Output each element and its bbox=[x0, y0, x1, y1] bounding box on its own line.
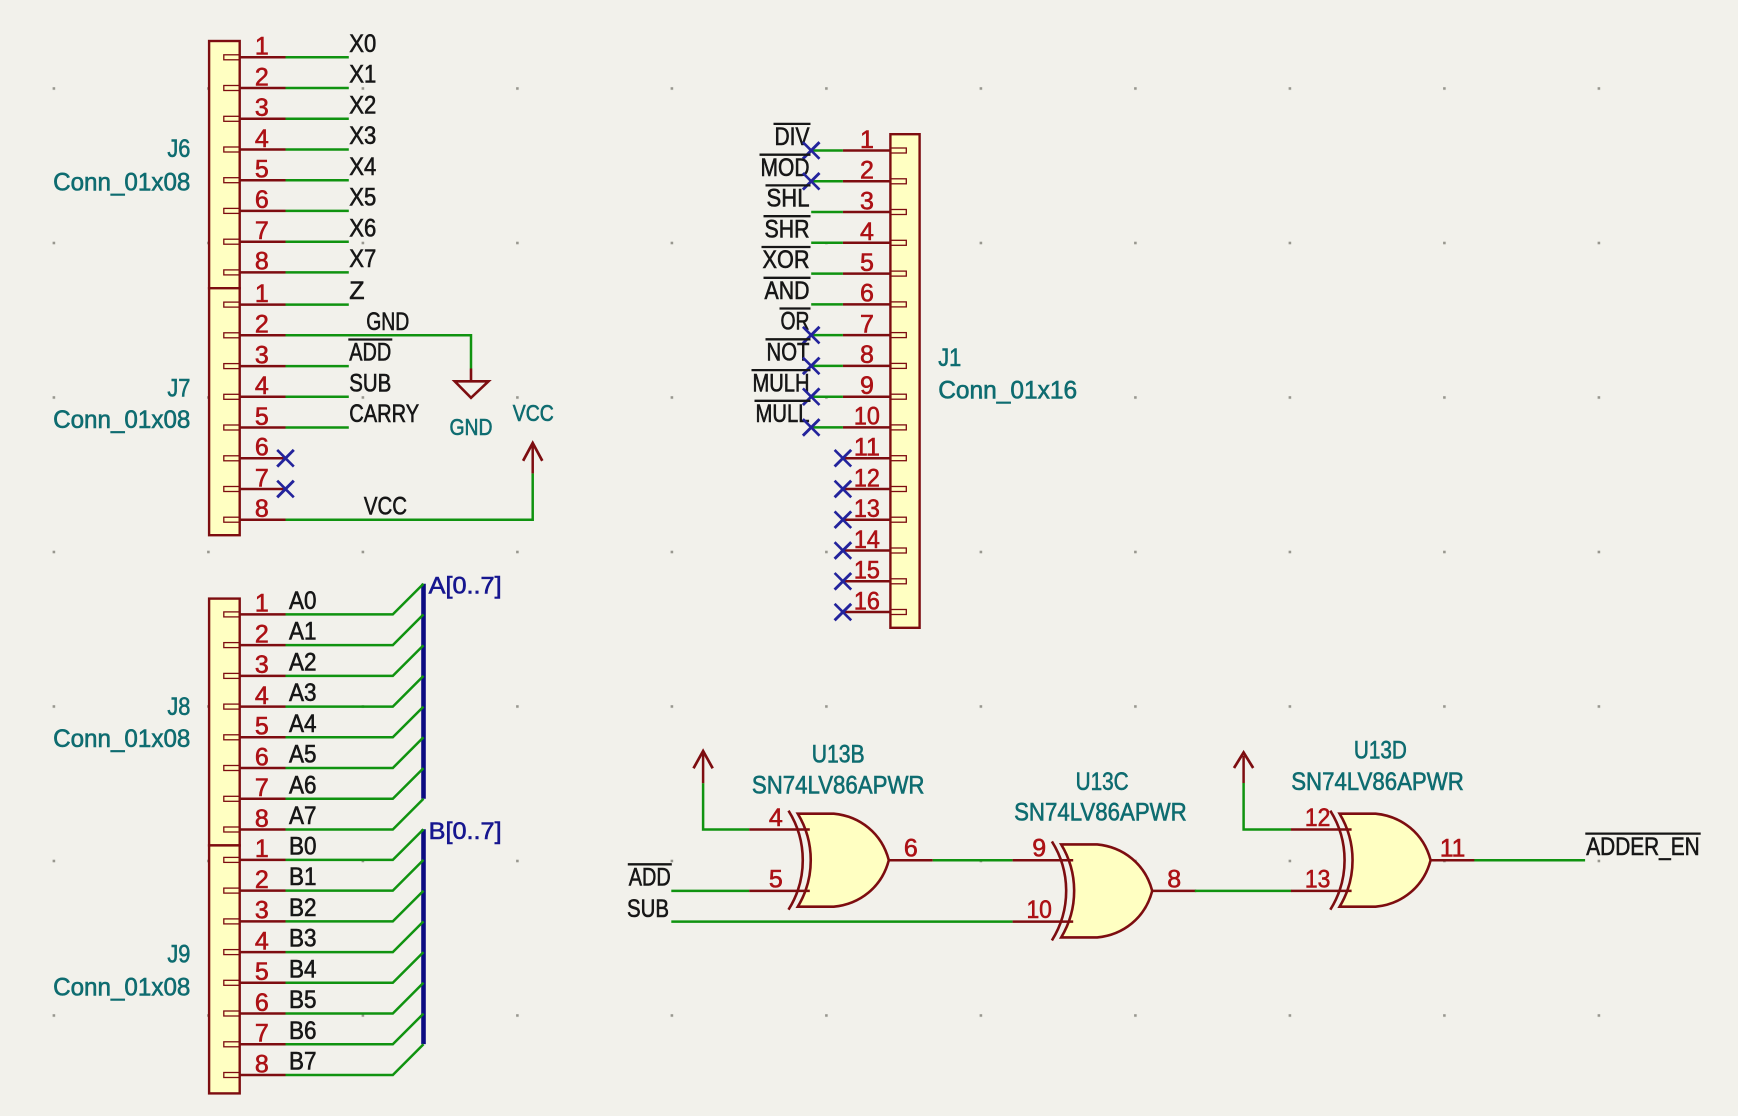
power symbol GND bbox=[450, 369, 493, 441]
svg-text:8: 8 bbox=[255, 805, 269, 833]
svg-text:CARRY: CARRY bbox=[349, 400, 419, 428]
connector J8 body bbox=[209, 599, 240, 846]
wire Z bbox=[286, 303, 349, 306]
J7 pin 2 bbox=[224, 311, 286, 339]
U13D output pin 11 bbox=[1431, 835, 1475, 863]
svg-text:B3: B3 bbox=[289, 925, 317, 953]
wire B5 to bus bbox=[286, 983, 424, 1014]
wire SHL bbox=[811, 211, 843, 214]
svg-text:10: 10 bbox=[1026, 896, 1052, 924]
wire B0 to bus bbox=[286, 829, 424, 860]
J1 pin 7 bbox=[843, 310, 906, 338]
J8 pin 5 bbox=[224, 713, 286, 741]
svg-text:8: 8 bbox=[860, 341, 874, 369]
xor gate U13D body bbox=[1330, 811, 1430, 910]
svg-text:15: 15 bbox=[854, 557, 880, 585]
J6 pin 1 bbox=[224, 33, 286, 61]
svg-text:5: 5 bbox=[860, 249, 874, 277]
U13D input pin 12 bbox=[1291, 804, 1352, 832]
wire SUB to U13C pin 10 bbox=[671, 920, 1012, 923]
svg-text:B4: B4 bbox=[289, 955, 317, 983]
wire ADD to U13B pin 5 bbox=[671, 890, 749, 893]
U13D input pin 13 bbox=[1291, 865, 1352, 893]
J1 pin 8 bbox=[843, 341, 906, 369]
svg-text:3: 3 bbox=[860, 187, 874, 215]
svg-text:4: 4 bbox=[255, 927, 269, 955]
J1 pin 9 bbox=[843, 372, 906, 400]
svg-text:4: 4 bbox=[860, 218, 874, 246]
svg-text:A7: A7 bbox=[289, 802, 317, 830]
J9 pin 3 bbox=[224, 897, 286, 925]
svg-text:OR: OR bbox=[781, 308, 810, 336]
svg-text:A0: A0 bbox=[289, 587, 317, 615]
J7 pin 5 bbox=[224, 403, 286, 431]
svg-text:J7: J7 bbox=[167, 375, 190, 403]
svg-text:GND: GND bbox=[366, 308, 409, 336]
svg-text:2: 2 bbox=[255, 311, 269, 339]
svg-text:7: 7 bbox=[255, 464, 269, 492]
svg-text:6: 6 bbox=[860, 280, 874, 308]
svg-text:B2: B2 bbox=[289, 894, 317, 922]
svg-text:A5: A5 bbox=[289, 741, 317, 769]
J9 pin 2 bbox=[224, 866, 286, 894]
svg-text:X3: X3 bbox=[349, 122, 376, 150]
svg-text:1: 1 bbox=[860, 126, 874, 154]
svg-text:Conn_01x08: Conn_01x08 bbox=[53, 169, 190, 197]
no-connect J1 pin 2 bbox=[803, 173, 820, 190]
wire X2 bbox=[286, 118, 349, 121]
wire GND net bbox=[286, 335, 472, 368]
J1 pin 5 bbox=[843, 249, 906, 277]
J6 pin 8 bbox=[224, 248, 286, 276]
J9 pin 7 bbox=[224, 1020, 286, 1048]
wire U13D pin 11 to ADDER_EN bbox=[1474, 859, 1585, 862]
svg-text:SUB: SUB bbox=[349, 369, 391, 397]
connector J9 body bbox=[209, 845, 240, 1093]
wire A2 to bus bbox=[286, 645, 424, 676]
svg-text:DIV: DIV bbox=[775, 123, 810, 151]
no-connect J1 pin 14 bbox=[835, 542, 852, 559]
svg-text:MULH: MULH bbox=[753, 369, 810, 397]
svg-text:9: 9 bbox=[860, 372, 874, 400]
wire CARRY bbox=[286, 426, 349, 429]
J7 pin 4 bbox=[224, 372, 286, 400]
J7 pin 7 bbox=[224, 464, 286, 492]
svg-text:1: 1 bbox=[255, 835, 269, 863]
wire A6 to bus bbox=[286, 768, 424, 799]
wire MULL bbox=[811, 426, 843, 429]
wire X0 bbox=[286, 56, 349, 59]
xor gate U13C body bbox=[1052, 841, 1152, 940]
wire VCC net bbox=[286, 473, 533, 519]
J6 pin 7 bbox=[224, 217, 286, 245]
wire XOR bbox=[811, 272, 843, 275]
svg-text:8: 8 bbox=[255, 1050, 269, 1078]
wire MULH bbox=[811, 395, 843, 398]
J9 pin 6 bbox=[224, 989, 286, 1017]
J8 pin 2 bbox=[224, 620, 286, 648]
wire B1 to bus bbox=[286, 860, 424, 891]
svg-text:SN74LV86APWR: SN74LV86APWR bbox=[1014, 799, 1187, 827]
wire B6 to bus bbox=[286, 1014, 424, 1045]
svg-text:8: 8 bbox=[255, 248, 269, 276]
J1 pin 15 bbox=[843, 557, 906, 585]
svg-text:4: 4 bbox=[255, 372, 269, 400]
svg-text:4: 4 bbox=[255, 682, 269, 710]
svg-text:11: 11 bbox=[854, 434, 880, 462]
svg-text:B[0..7]: B[0..7] bbox=[429, 818, 502, 845]
svg-text:VCC: VCC bbox=[513, 400, 554, 426]
J9 pin 8 bbox=[224, 1050, 286, 1078]
no-connect J1 pin 16 bbox=[835, 604, 852, 621]
svg-text:2: 2 bbox=[255, 620, 269, 648]
svg-text:Conn_01x08: Conn_01x08 bbox=[53, 974, 190, 1002]
U13B input pin 4 bbox=[749, 804, 810, 832]
svg-text:U13D: U13D bbox=[1354, 737, 1407, 765]
svg-text:Conn_01x16: Conn_01x16 bbox=[938, 377, 1077, 405]
no-connect J1 pin 9 bbox=[803, 388, 820, 405]
U13B output pin 6 bbox=[889, 835, 933, 863]
connector J1 body bbox=[890, 134, 919, 628]
wire MOD bbox=[811, 180, 843, 183]
wire X3 bbox=[286, 148, 349, 151]
svg-text:7: 7 bbox=[255, 217, 269, 245]
svg-text:Conn_01x08: Conn_01x08 bbox=[53, 725, 190, 753]
svg-text:B1: B1 bbox=[289, 863, 317, 891]
svg-text:4: 4 bbox=[769, 804, 783, 832]
J6 pin 2 bbox=[224, 63, 286, 91]
svg-text:7: 7 bbox=[255, 1020, 269, 1048]
J1 pin 10 bbox=[843, 403, 906, 431]
svg-text:X7: X7 bbox=[349, 245, 376, 273]
svg-text:Z: Z bbox=[349, 277, 364, 305]
svg-text:B7: B7 bbox=[289, 1048, 317, 1076]
svg-text:XOR: XOR bbox=[763, 246, 810, 274]
svg-text:VCC: VCC bbox=[364, 492, 407, 520]
no-connect J1 pin 13 bbox=[835, 511, 852, 528]
no-connect J1 pin 10 bbox=[803, 419, 820, 436]
wire A7 to bus bbox=[286, 799, 424, 830]
wire DIV bbox=[811, 149, 843, 152]
svg-text:6: 6 bbox=[255, 989, 269, 1017]
J8 pin 6 bbox=[224, 743, 286, 771]
J7 pin 6 bbox=[224, 434, 286, 462]
svg-text:ADDER_EN: ADDER_EN bbox=[1586, 833, 1699, 861]
svg-text:13: 13 bbox=[1305, 865, 1331, 893]
svg-text:5: 5 bbox=[255, 156, 269, 184]
wire ADD bbox=[286, 365, 349, 368]
svg-text:X6: X6 bbox=[349, 214, 376, 242]
J1 pin 1 bbox=[843, 126, 906, 154]
wire A0 to bus bbox=[286, 584, 424, 615]
svg-text:U13B: U13B bbox=[812, 741, 865, 769]
wire X1 bbox=[286, 87, 349, 90]
no-connect J7 pin 6 bbox=[277, 450, 294, 467]
svg-text:10: 10 bbox=[854, 403, 880, 431]
svg-text:1: 1 bbox=[255, 280, 269, 308]
power symbol VCC bbox=[513, 400, 554, 473]
svg-text:X0: X0 bbox=[349, 30, 376, 58]
no-connect J1 pin 15 bbox=[835, 573, 852, 590]
svg-text:3: 3 bbox=[255, 651, 269, 679]
J7 pin 8 bbox=[224, 495, 286, 523]
svg-text:A1: A1 bbox=[289, 618, 317, 646]
J9 pin 4 bbox=[224, 927, 286, 955]
J1 pin 4 bbox=[843, 218, 906, 246]
J6 pin 4 bbox=[224, 125, 286, 153]
J7 pin 1 bbox=[224, 280, 286, 308]
svg-text:SHL: SHL bbox=[767, 185, 810, 213]
svg-text:U13C: U13C bbox=[1076, 768, 1129, 796]
svg-text:6: 6 bbox=[255, 186, 269, 214]
wire U13B pin 6 to U13C pin 9 bbox=[933, 859, 1013, 862]
svg-text:Conn_01x08: Conn_01x08 bbox=[53, 406, 190, 434]
svg-text:1: 1 bbox=[255, 33, 269, 61]
J8 pin 1 bbox=[224, 590, 286, 618]
svg-text:9: 9 bbox=[1032, 835, 1046, 863]
J8 pin 7 bbox=[224, 774, 286, 802]
svg-text:X5: X5 bbox=[349, 184, 376, 212]
no-connect J1 pin 7 bbox=[803, 327, 820, 344]
svg-text:11: 11 bbox=[1440, 835, 1466, 863]
J6 pin 6 bbox=[224, 186, 286, 214]
svg-text:5: 5 bbox=[255, 713, 269, 741]
wire X6 bbox=[286, 240, 349, 243]
J9 pin 1 bbox=[224, 835, 286, 863]
svg-text:J1: J1 bbox=[938, 344, 961, 372]
svg-text:B5: B5 bbox=[289, 986, 317, 1014]
J7 pin 3 bbox=[224, 341, 286, 369]
connector J7 body bbox=[209, 288, 240, 535]
svg-text:A3: A3 bbox=[289, 679, 317, 707]
J1 pin 2 bbox=[843, 157, 906, 185]
bus B[0..7] bbox=[421, 829, 426, 1044]
svg-text:GND: GND bbox=[450, 414, 493, 440]
svg-text:B6: B6 bbox=[289, 1017, 317, 1045]
wire B7 to bus bbox=[286, 1044, 424, 1075]
wire U13C pin 8 to U13D pin 13 bbox=[1195, 890, 1292, 893]
svg-text:A4: A4 bbox=[289, 710, 317, 738]
J1 pin 16 bbox=[843, 587, 906, 615]
wire NOT bbox=[811, 365, 843, 368]
power symbol VCC (U13D pin 12) bbox=[1234, 753, 1253, 784]
svg-text:ADD: ADD bbox=[629, 864, 671, 892]
svg-text:SN74LV86APWR: SN74LV86APWR bbox=[1291, 768, 1464, 796]
xor gate U13B body bbox=[789, 811, 889, 910]
svg-text:8: 8 bbox=[255, 495, 269, 523]
J8 pin 8 bbox=[224, 805, 286, 833]
wire B4 to bus bbox=[286, 952, 424, 983]
svg-text:8: 8 bbox=[1167, 865, 1181, 893]
power symbol VCC (U13B pin 4) bbox=[694, 751, 713, 783]
U13C input pin 9 bbox=[1013, 835, 1074, 863]
wire X5 bbox=[286, 210, 349, 213]
wire B3 to bus bbox=[286, 921, 424, 952]
wire SUB bbox=[286, 396, 349, 399]
svg-text:J9: J9 bbox=[167, 941, 190, 969]
wire VCC to U13D pin 12 bbox=[1244, 783, 1291, 830]
J1 pin 6 bbox=[843, 280, 906, 308]
svg-text:5: 5 bbox=[255, 403, 269, 431]
svg-text:3: 3 bbox=[255, 897, 269, 925]
J6 pin 3 bbox=[224, 94, 286, 122]
no-connect J1 pin 11 bbox=[835, 450, 852, 467]
wire B2 to bus bbox=[286, 891, 424, 922]
svg-text:14: 14 bbox=[854, 526, 880, 554]
J8 pin 4 bbox=[224, 682, 286, 710]
no-connect J1 pin 1 bbox=[803, 142, 820, 159]
svg-text:X4: X4 bbox=[349, 153, 376, 181]
svg-text:SN74LV86APWR: SN74LV86APWR bbox=[752, 772, 925, 800]
svg-text:1: 1 bbox=[255, 590, 269, 618]
wire AND bbox=[811, 303, 843, 306]
no-connect J1 pin 12 bbox=[835, 481, 852, 498]
svg-text:12: 12 bbox=[1305, 804, 1331, 832]
svg-text:SUB: SUB bbox=[627, 895, 669, 923]
svg-text:6: 6 bbox=[255, 434, 269, 462]
svg-text:J8: J8 bbox=[167, 693, 190, 721]
connector J6 body bbox=[209, 41, 240, 288]
J1 pin 12 bbox=[843, 464, 906, 492]
svg-text:7: 7 bbox=[860, 310, 874, 338]
svg-text:6: 6 bbox=[904, 835, 918, 863]
J1 pin 3 bbox=[843, 187, 906, 215]
J8 pin 3 bbox=[224, 651, 286, 679]
no-connect J7 pin 7 bbox=[277, 481, 294, 498]
wire A1 to bus bbox=[286, 614, 424, 645]
svg-text:AND: AND bbox=[765, 277, 810, 305]
svg-text:6: 6 bbox=[255, 743, 269, 771]
J6 pin 5 bbox=[224, 156, 286, 184]
svg-text:B0: B0 bbox=[289, 833, 317, 861]
svg-text:J6: J6 bbox=[167, 135, 190, 163]
svg-text:7: 7 bbox=[255, 774, 269, 802]
svg-text:3: 3 bbox=[255, 341, 269, 369]
no-connect J1 pin 8 bbox=[803, 358, 820, 375]
wire SHR bbox=[811, 242, 843, 245]
svg-text:SHR: SHR bbox=[765, 215, 810, 243]
svg-text:2: 2 bbox=[860, 157, 874, 185]
svg-text:MULL: MULL bbox=[756, 400, 810, 428]
J1 pin 11 bbox=[843, 434, 906, 462]
svg-text:NOT: NOT bbox=[767, 339, 810, 367]
wire OR bbox=[811, 334, 843, 337]
wire VCC to U13B pin 4 bbox=[703, 783, 749, 829]
U13C output pin 8 bbox=[1152, 865, 1196, 893]
J9 pin 5 bbox=[224, 958, 286, 986]
svg-text:2: 2 bbox=[255, 63, 269, 91]
svg-text:12: 12 bbox=[854, 464, 880, 492]
svg-text:2: 2 bbox=[255, 866, 269, 894]
svg-text:A2: A2 bbox=[289, 649, 317, 677]
svg-text:MOD: MOD bbox=[761, 154, 810, 182]
wire A3 to bus bbox=[286, 676, 424, 707]
svg-text:X2: X2 bbox=[349, 91, 376, 119]
bus A[0..7] bbox=[421, 584, 426, 799]
wire A4 to bus bbox=[286, 707, 424, 738]
wire X7 bbox=[286, 271, 349, 274]
svg-text:16: 16 bbox=[854, 587, 880, 615]
svg-text:13: 13 bbox=[854, 495, 880, 523]
svg-text:ADD: ADD bbox=[349, 339, 391, 367]
svg-text:5: 5 bbox=[255, 958, 269, 986]
wire A5 to bus bbox=[286, 737, 424, 768]
svg-text:A6: A6 bbox=[289, 771, 317, 799]
J1 pin 13 bbox=[843, 495, 906, 523]
svg-text:X1: X1 bbox=[349, 61, 376, 89]
svg-text:3: 3 bbox=[255, 94, 269, 122]
wire X4 bbox=[286, 179, 349, 182]
svg-text:4: 4 bbox=[255, 125, 269, 153]
svg-text:5: 5 bbox=[769, 865, 783, 893]
J1 pin 14 bbox=[843, 526, 906, 554]
U13C input pin 10 bbox=[1013, 896, 1074, 924]
svg-text:A[0..7]: A[0..7] bbox=[429, 572, 502, 599]
U13B input pin 5 bbox=[749, 865, 810, 893]
